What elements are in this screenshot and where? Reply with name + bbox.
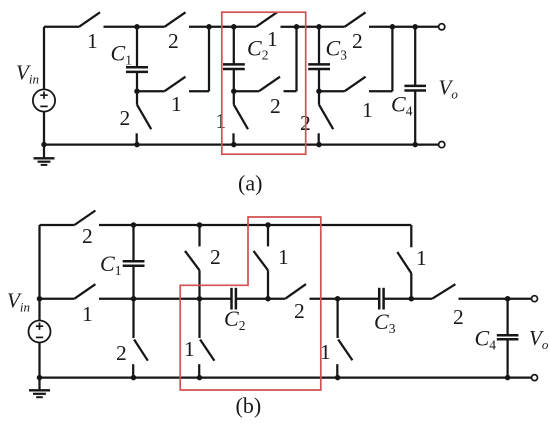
wire: Vin positive lead up to top rail and to switch S1a bbox=[44, 27, 79, 90]
svg-text:Vin: Vin bbox=[16, 61, 39, 87]
switch S1b phase 2 (top rail left) bbox=[40, 211, 134, 226]
svg-text:C3: C3 bbox=[374, 309, 396, 336]
wire: Vin node down to source top (b) bbox=[38, 299, 40, 321]
node B1: C1 top junction (b) bbox=[131, 222, 137, 228]
label phase 1 of S1a bbox=[87, 29, 98, 53]
wire: mid rail B4 to B5 bbox=[134, 298, 200, 300]
switch S6a phase 2 (C2 lower horizontal) bbox=[234, 77, 297, 92]
wire: node B9 to output terminal (b) bbox=[508, 298, 532, 300]
red highlight box around C2 stage (a) bbox=[222, 12, 306, 154]
wire: top rail B3 to right corner (b) bbox=[268, 224, 411, 226]
voltage source Vin (b) bbox=[29, 321, 51, 343]
terminal: output positive (b) bbox=[532, 296, 538, 302]
switch S1a phase 1 (top rail) bbox=[79, 12, 137, 26]
switch S3b phase 2 (C1 node down to ground) bbox=[133, 299, 148, 378]
label C4 (a) bbox=[391, 92, 413, 119]
node M2: C2 bottom junction bbox=[231, 88, 237, 94]
label Vin (a) bbox=[16, 61, 39, 87]
switch S9a phase 1 (C2 bottom to ground) bbox=[234, 91, 249, 144]
capacitor C3 (b) bbox=[379, 288, 383, 310]
label phase 1 of S5a bbox=[171, 92, 182, 116]
wire: second vertical connector A4 down to C2 lower wire bbox=[295, 27, 297, 91]
label phase 2 of S6a bbox=[270, 94, 281, 118]
svg-text:Vo: Vo bbox=[529, 326, 549, 352]
wire: third vertical connector A6 down to C3 lower wire bbox=[391, 27, 393, 91]
switch S2b phase 1 (mid rail left) bbox=[40, 284, 134, 299]
label phase 2 of S7b bbox=[294, 299, 305, 323]
svg-text:2: 2 bbox=[82, 224, 93, 248]
switch S2a phase 2 (top rail) bbox=[137, 12, 209, 26]
wire: C2 right plate to node B6 bbox=[236, 298, 268, 300]
switch S5b phase 1 (column 1 down to ground) bbox=[199, 299, 214, 378]
svg-text:1: 1 bbox=[267, 27, 278, 51]
node G3: ground rail below C3 bbox=[316, 142, 322, 148]
label phase 2 of S4b bbox=[210, 245, 221, 269]
label phase 2 of S4a bbox=[352, 29, 363, 53]
red highlight step-polygon around C2 stage (b) bbox=[180, 217, 321, 390]
label V0 output (b) bbox=[529, 326, 549, 352]
node B6: mid rail junction column 2 (b) bbox=[265, 296, 271, 302]
label phase 2 of S10b bbox=[453, 305, 464, 329]
capacitor C4 (b) bbox=[497, 299, 519, 378]
caption (a) bbox=[238, 171, 262, 196]
label phase 2 of S1b bbox=[82, 224, 93, 248]
wire: top rail node A7 to output terminal bbox=[415, 26, 438, 28]
svg-text:C1: C1 bbox=[111, 41, 132, 68]
terminal: output positive (a) bbox=[439, 24, 445, 30]
node G4: ground rail below C4 bbox=[412, 142, 418, 148]
ground rail (a) bbox=[44, 143, 439, 145]
svg-text:1: 1 bbox=[82, 302, 93, 326]
voltage source Vin (a) bbox=[33, 89, 55, 111]
label C1 (b) bbox=[100, 251, 121, 278]
ground symbol (b) bbox=[29, 378, 50, 398]
terminal: output negative (b) bbox=[532, 375, 538, 381]
switch S10a phase 2 (C3 bottom to ground) bbox=[319, 91, 334, 144]
switch S3a phase 1 (top rail) bbox=[234, 12, 297, 26]
capacitor C1 (b) bbox=[123, 225, 145, 299]
svg-text:C2: C2 bbox=[224, 306, 245, 333]
svg-text:C4: C4 bbox=[475, 326, 497, 353]
label phase 1 of S3a bbox=[267, 27, 278, 51]
node M1: C1 bottom junction bbox=[134, 88, 140, 94]
svg-text:2: 2 bbox=[294, 299, 305, 323]
capacitor C2 (a) bbox=[223, 27, 245, 91]
wire: top rail B1 to B2 bbox=[134, 224, 200, 226]
svg-text:1: 1 bbox=[416, 246, 427, 270]
label C3 (a) bbox=[326, 36, 348, 63]
capacitor C4 (a) bbox=[404, 27, 426, 145]
svg-text:2: 2 bbox=[453, 305, 464, 329]
wire: mid rail B5 to C2 left plate bbox=[200, 298, 232, 300]
label phase 2 of S3b bbox=[116, 341, 127, 365]
node G0b: Vin ground corner (b) bbox=[37, 375, 43, 381]
capacitor C2 (b) bbox=[232, 288, 236, 310]
ground symbol (a) bbox=[34, 145, 55, 165]
node G1b: ground rail below C1 (b) bbox=[131, 375, 137, 381]
wire: left vertical from top rail down to Vin node (b) bbox=[38, 225, 40, 299]
svg-text:2: 2 bbox=[168, 29, 179, 53]
wire: source bottom to ground rail (b) bbox=[38, 343, 40, 378]
switch S6b phase 1 (vertical, top rail to mid rail) bbox=[254, 225, 269, 299]
node B4: C1 bottom junction on mid rail (b) bbox=[131, 296, 137, 302]
svg-text:2: 2 bbox=[352, 29, 363, 53]
label phase 2 of S2a bbox=[168, 29, 179, 53]
label phase 2 of S10a bbox=[300, 111, 311, 135]
svg-text:1: 1 bbox=[278, 245, 289, 269]
label phase 1 of S9a bbox=[216, 109, 227, 133]
switch S5a phase 1 (C1 lower horizontal) bbox=[137, 77, 209, 92]
label C1 (a) bbox=[111, 41, 132, 68]
svg-text:1: 1 bbox=[87, 29, 98, 53]
node B7: mid rail junction column 3 (b) bbox=[335, 296, 341, 302]
switch S8a phase 2 (C1 bottom to ground) bbox=[137, 91, 152, 144]
label phase 1 of S2b bbox=[82, 302, 93, 326]
node A6: top of third vertical connector bbox=[390, 24, 396, 30]
node G4b: ground rail below C4 (b) bbox=[505, 375, 511, 381]
label C2 (b) bbox=[224, 306, 245, 333]
node G2: ground rail below C2 bbox=[231, 142, 237, 148]
svg-text:C3: C3 bbox=[326, 36, 348, 63]
wire: C3 right plate to node B8 bbox=[384, 298, 412, 300]
capacitor C1 (a) bbox=[126, 27, 148, 91]
svg-text:2: 2 bbox=[116, 341, 127, 365]
caption (b) bbox=[236, 393, 262, 418]
node G0: Vin ground corner (a) bbox=[41, 142, 47, 148]
switch S8b phase 1 (column 3 down to ground) bbox=[337, 299, 352, 378]
node B3: top of vertical switch column 2 (b) bbox=[265, 222, 271, 228]
label phase 1 of S6b bbox=[278, 245, 289, 269]
ground rail (b) bbox=[40, 376, 532, 378]
label phase 1 of S9b bbox=[416, 246, 427, 270]
node A2: top of first vertical connector bbox=[206, 24, 212, 30]
node A1: C1 top junction bbox=[134, 24, 140, 30]
node B2: top of vertical switch column 1 (b) bbox=[197, 222, 203, 228]
switch S7b phase 2 (mid rail, right of C2) bbox=[268, 284, 338, 299]
node B8: mid rail junction below right corner (b) bbox=[409, 296, 415, 302]
svg-text:(b): (b) bbox=[236, 393, 262, 418]
label phase 1 of S8b bbox=[320, 340, 331, 364]
capacitor C3 (a) bbox=[308, 27, 330, 91]
wire: Vin negative lead down to ground rail bbox=[43, 112, 45, 145]
svg-text:Vo: Vo bbox=[439, 76, 459, 102]
label C3 (b) bbox=[374, 309, 396, 336]
switch S4b phase 2 (vertical, top rail to mid rail) bbox=[185, 225, 200, 299]
svg-text:1: 1 bbox=[184, 337, 195, 361]
label C2 (a) bbox=[247, 36, 268, 63]
node B5: mid rail junction column 1 (b) bbox=[197, 296, 203, 302]
node G2b: ground rail column 1 (b) bbox=[197, 375, 203, 381]
node B0: Vin junction on mid rail (b) bbox=[37, 296, 43, 302]
wire: top rail node A4 to node A5 bbox=[297, 26, 320, 28]
svg-text:(a): (a) bbox=[238, 171, 262, 196]
svg-text:2: 2 bbox=[120, 106, 131, 130]
label C4 (b) bbox=[475, 326, 497, 353]
switch S10b phase 2 (mid rail, output side) bbox=[411, 284, 507, 299]
switch S4a phase 2 (top rail) bbox=[319, 12, 392, 26]
svg-text:C2: C2 bbox=[247, 36, 268, 63]
svg-text:1: 1 bbox=[171, 92, 182, 116]
wire: top rail node A6 to node A7 bbox=[392, 26, 415, 28]
wire: first vertical connector A2 down to C1 lower wire bbox=[208, 27, 210, 91]
label phase 1 of S7a bbox=[362, 98, 373, 122]
wire: mid rail B7 to C3 left plate bbox=[338, 298, 380, 300]
svg-text:2: 2 bbox=[210, 245, 221, 269]
switch S7a phase 1 (C3 lower horizontal) bbox=[319, 77, 392, 92]
svg-text:C4: C4 bbox=[391, 92, 413, 119]
node M3: C3 bottom junction bbox=[316, 88, 322, 94]
wire: top rail B2 to B3 bbox=[200, 224, 269, 226]
node A5: C3 top junction bbox=[316, 24, 322, 30]
svg-text:1: 1 bbox=[362, 98, 373, 122]
terminal: output negative (a) bbox=[439, 142, 445, 148]
node G3b: ground rail column 3 (b) bbox=[335, 375, 341, 381]
node A7: C4 top junction bbox=[412, 24, 418, 30]
label phase 2 of S8a bbox=[120, 106, 131, 130]
node G1: ground rail below C1 bbox=[134, 142, 140, 148]
label V0 output (a) bbox=[439, 76, 459, 102]
svg-text:Vin: Vin bbox=[7, 289, 30, 315]
switch S9b phase 1 (vertical, top rail corner to mid rail) bbox=[397, 225, 411, 299]
label Vin (b) bbox=[7, 289, 30, 315]
node A3: C2 top junction bbox=[231, 24, 237, 30]
wire: top rail node A2 to node A3 bbox=[209, 26, 234, 28]
node A4: top of second vertical connector bbox=[294, 24, 300, 30]
node B9: C4 top junction (b) bbox=[505, 296, 511, 302]
svg-text:2: 2 bbox=[270, 94, 281, 118]
svg-text:1: 1 bbox=[216, 109, 227, 133]
svg-text:C1: C1 bbox=[100, 251, 121, 278]
label phase 1 of S5b bbox=[184, 337, 195, 361]
